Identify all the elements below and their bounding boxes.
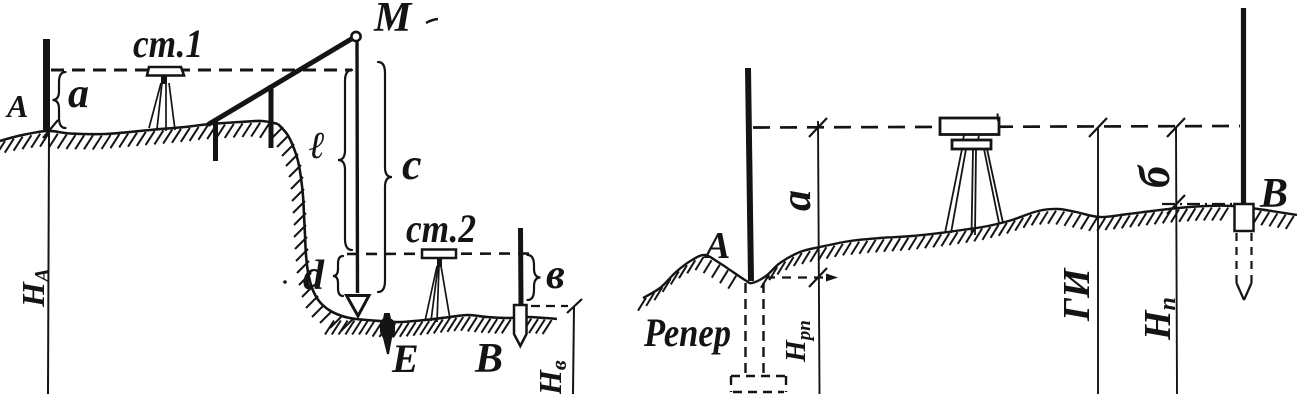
svg-text:ГИ: ГИ [1056,267,1098,322]
svg-text:А: А [5,88,28,124]
level instrument (right) telescope [940,118,999,135]
brace c [378,62,392,292]
ground surface right diagram [643,206,1297,298]
svg-text:а: а [774,190,820,211]
svg-text:ст.1: ст.1 [133,21,203,66]
svg-text:а: а [68,71,89,117]
small dash right of M [426,19,438,23]
leveling rod A (left) [43,39,50,131]
benchmark post (dashed, below ground) [746,283,764,375]
svg-text:d: d [303,253,325,299]
svg-text:М: М [373,0,413,41]
level instrument station 1 [147,67,184,84]
tick on GI line [1089,118,1107,137]
pulley at point M [351,32,360,41]
boom post 2 [269,85,274,148]
peg at B above ground [1235,204,1254,231]
measurement line a / H_rp vertical [818,121,820,394]
Hp line [1176,127,1177,394]
tripod (right) [945,149,1003,235]
instrument stand [952,135,991,149]
stray dot [283,280,287,284]
leveling rod B (right) [1241,8,1246,204]
svg-text:в: в [546,252,565,298]
tick on Hp line at sight line [1167,118,1185,137]
boom / derrick arm [209,38,353,124]
tripod station 2 [425,258,450,322]
tick on a-line at sight line [809,118,827,137]
svg-text:ст.2: ст.2 [406,206,476,251]
svg-text:В: В [474,336,503,382]
hatching right ground [638,208,1294,311]
svg-text:В: В [1259,171,1288,217]
brace v [528,255,541,300]
hatching cliff face [271,127,353,331]
cliff face [278,124,380,321]
tick on a-line at benchmark level [809,268,827,287]
tripod station 1 [149,83,175,131]
height line H_B [573,306,574,394]
brace l [338,70,352,250]
svg-text:с: с [402,140,422,189]
sight line station 2 (dashed) [347,252,533,255]
plumb line from M [355,41,359,293]
dash-dot line at point B level [1162,203,1236,205]
tick on Hp line at point B level [1167,195,1185,214]
boom post 1 [213,119,218,161]
svg-text:А: А [703,225,730,267]
point E plumb marker (solid) [381,314,394,354]
svg-text:ℓ: ℓ [309,125,325,167]
brace d [333,256,343,296]
svg-text:Репер: Репер [643,310,731,355]
hatching upper plateau [0,123,269,156]
sight line right diagram (dashed) [753,126,1240,128]
tick x at H_B line [567,299,582,313]
peg-top level dashed line [531,305,568,307]
ground surface left upper plateau [0,121,278,141]
sight line station 1 (dashed) [51,69,352,72]
brace a [53,72,66,128]
GI line (instrument horizon) [1097,127,1099,394]
benchmark level dashed line with arrow [766,276,828,278]
hatching lower ground [325,317,552,338]
svg-text:Е: Е [391,336,419,381]
plumb bob (hollow) [347,296,370,317]
peg at B (pointed stake) [514,305,527,346]
peg below ground (dashed with arrow) [1237,233,1252,300]
height line H_A [48,131,49,394]
leveling rod A (right) [748,68,751,281]
ground surface left lower level [380,315,557,322]
svg-text:б: б [1130,164,1179,188]
tick at rod A base [43,120,58,138]
leveling rod B (left) [518,228,524,306]
level instrument station 2 [422,250,456,259]
benchmark footing (dashed) [731,376,786,392]
